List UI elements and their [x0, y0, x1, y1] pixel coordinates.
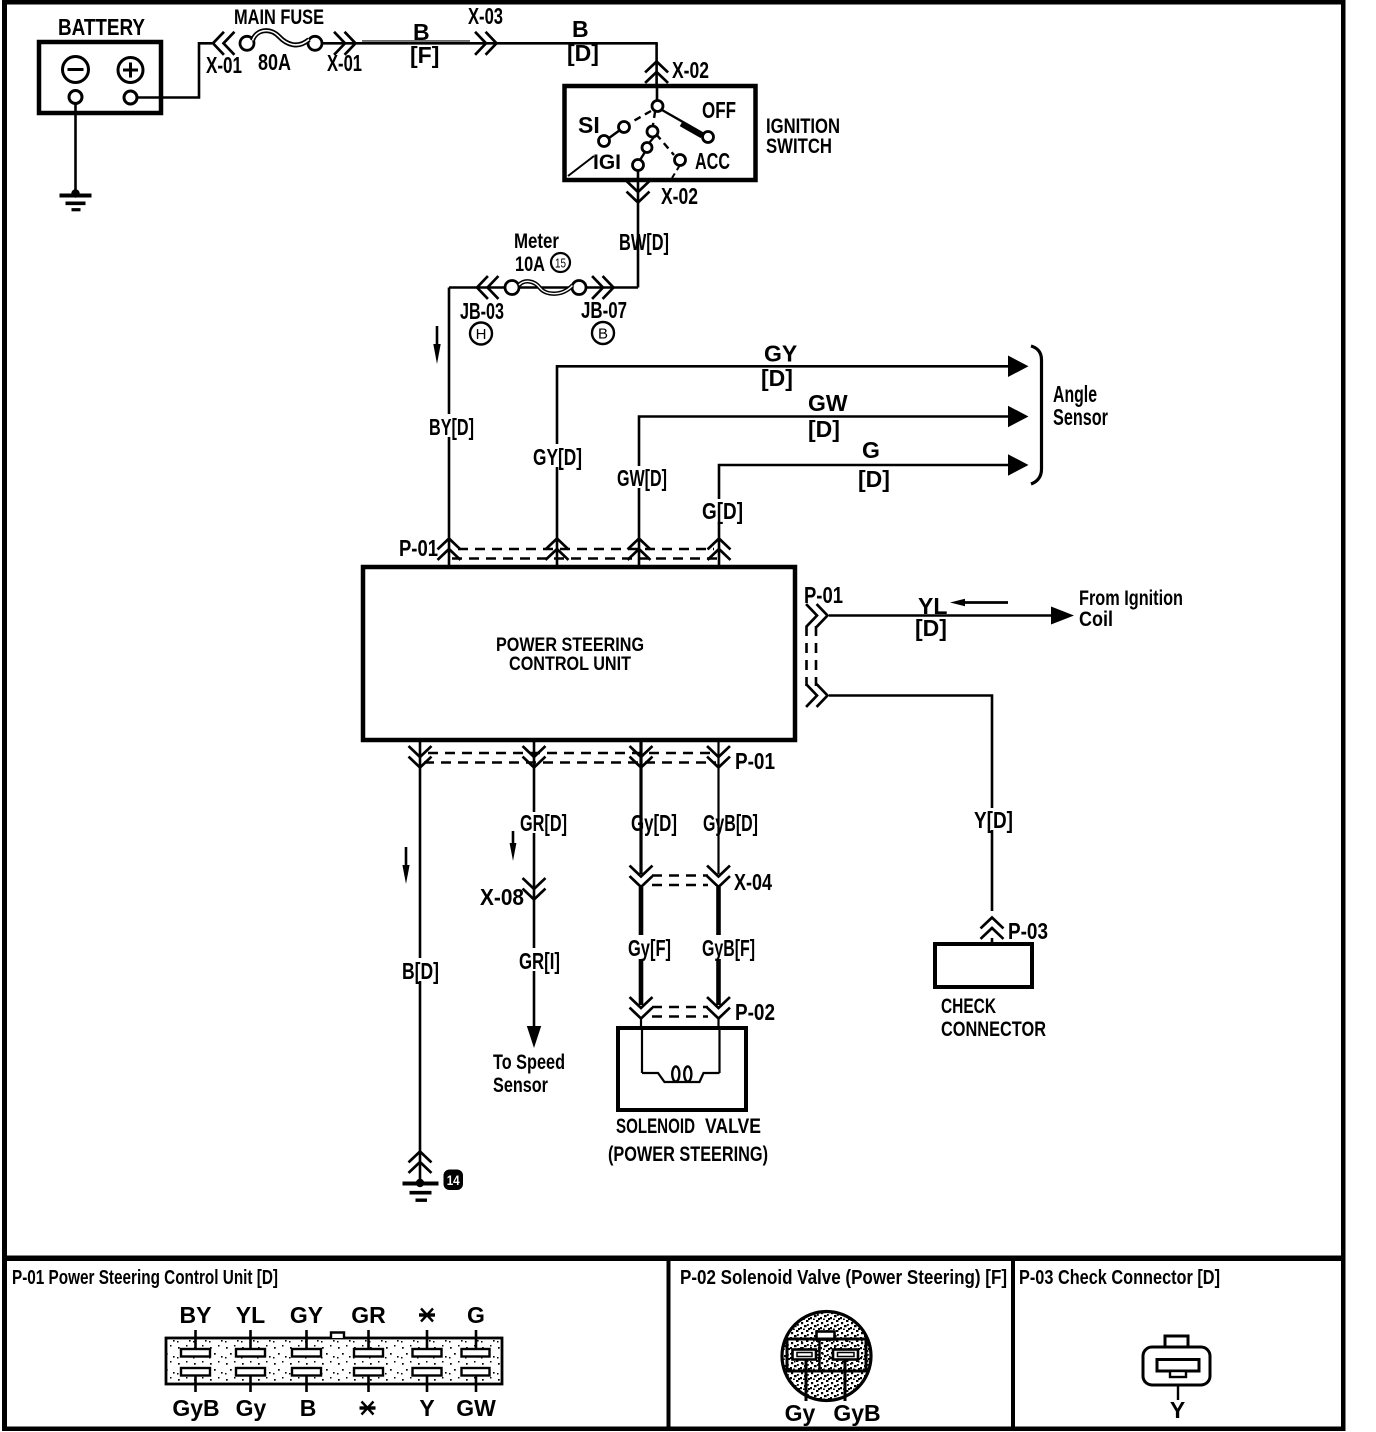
- connector P-03 (chevrons): [982, 918, 1003, 939]
- svg-text:BY[D]: BY[D]: [429, 414, 474, 440]
- ignition switch internals: [568, 88, 736, 178]
- svg-text:15: 15: [555, 256, 566, 271]
- wire GW[D] to angle sensor: [639, 390, 1009, 567]
- svg-text:Meter: Meter: [514, 230, 559, 253]
- P-01 connector pinout: [166, 1333, 502, 1385]
- svg-text:B[D]: B[D]: [402, 958, 439, 984]
- svg-text:CONNECTOR: CONNECTOR: [941, 1018, 1046, 1041]
- wire battery+ to main fuse: [138, 43, 213, 97]
- svg-text:[D]: [D]: [567, 40, 599, 66]
- ignition switch S1 box: [565, 86, 841, 180]
- pins (bottom row): [181, 1368, 490, 1376]
- wire B[D] to ground: [419, 740, 422, 1181]
- direction arrow: [402, 847, 409, 884]
- connector P-01 (bottom row): [410, 747, 776, 774]
- pin stubs (top): [196, 1330, 477, 1350]
- arrowhead GY: [1008, 356, 1029, 378]
- ground (body) chevrons: [410, 1152, 431, 1173]
- svg-text:X-02: X-02: [672, 57, 709, 83]
- svg-text:X-02: X-02: [661, 183, 698, 209]
- svg-text:[D]: [D]: [858, 466, 890, 492]
- svg-text:P-01: P-01: [399, 535, 438, 561]
- solenoid coil L1: [642, 1030, 720, 1082]
- label Y[D]: [971, 808, 1015, 830]
- svg-text:Gy[D]: Gy[D]: [631, 810, 677, 836]
- wire YL[D]: [829, 614, 1051, 617]
- svg-text:IGI: IGI: [593, 151, 621, 174]
- connector X-04: [631, 867, 773, 896]
- svg-text:GY: GY: [764, 341, 797, 367]
- svg-text:JB-07: JB-07: [581, 297, 627, 323]
- svg-text:GyB[D]: GyB[D]: [703, 810, 758, 836]
- svg-text:GW: GW: [808, 390, 848, 416]
- svg-text:X-04: X-04: [734, 869, 772, 895]
- ground (battery): [60, 104, 92, 210]
- svg-text:GR[I]: GR[I]: [519, 948, 560, 974]
- ground number 14: [444, 1170, 464, 1191]
- main fuse 80A: [234, 6, 324, 75]
- connector JB-07: [593, 277, 614, 298]
- svg-text:(POWER STEERING): (POWER STEERING): [608, 1143, 768, 1166]
- pin labels (top): [180, 1302, 485, 1328]
- label GyB[F]: [700, 935, 757, 959]
- wire down to ignition switch: [655, 43, 658, 88]
- label B[D]: [400, 958, 441, 981]
- svg-text:[D]: [D]: [761, 365, 793, 391]
- direction arrow (left): [950, 599, 1008, 607]
- wire GY[D] to angle sensor: [557, 341, 1009, 568]
- label Gy[F]: [626, 935, 673, 959]
- svg-text:80A: 80A: [258, 49, 291, 75]
- svg-text:GyB[F]: GyB[F]: [702, 935, 755, 961]
- svg-text:P-03 Check Connector [D]: P-03 Check Connector [D]: [1019, 1267, 1220, 1289]
- svg-text:Y: Y: [1170, 1397, 1185, 1423]
- svg-text:GW: GW: [456, 1395, 496, 1421]
- svg-text:VALVE: VALVE: [705, 1115, 761, 1138]
- svg-text:GR[D]: GR[D]: [520, 810, 567, 836]
- svg-text:P-01: P-01: [735, 748, 775, 774]
- connector P-01 (top row): [399, 535, 730, 561]
- arrowhead G: [1008, 454, 1029, 476]
- label GR[D]: [518, 812, 569, 833]
- label Gy[D]: [629, 812, 679, 834]
- svg-text:JB-03: JB-03: [460, 298, 504, 324]
- svg-text:Y[D]: Y[D]: [974, 807, 1013, 833]
- connector JB-03: [477, 277, 498, 298]
- svg-text:BATTERY: BATTERY: [58, 14, 145, 40]
- wire ignition to meter fuse: [637, 170, 640, 288]
- svg-text:GyB: GyB: [833, 1400, 880, 1426]
- svg-text:[F]: [F]: [410, 42, 439, 68]
- angle sensor bracket: [1031, 346, 1042, 484]
- label GY[D] (vertical wire): [531, 444, 584, 467]
- svg-text:X-03: X-03: [468, 3, 503, 29]
- pin labels (bottom): [172, 1395, 496, 1421]
- wire meter fuse row: [449, 286, 638, 289]
- svg-text:POWER STEERING: POWER STEERING: [496, 635, 644, 656]
- meter fuse 10A: [505, 230, 586, 295]
- power steering control unit U1: [363, 567, 795, 740]
- svg-text:GY: GY: [290, 1302, 323, 1328]
- pins (top row): [181, 1349, 490, 1357]
- svg-text:SWITCH: SWITCH: [766, 135, 832, 158]
- svg-text:P-03: P-03: [1008, 918, 1048, 944]
- svg-text:14: 14: [447, 1173, 460, 1188]
- not-used symbol (top): [419, 1309, 435, 1322]
- svg-text:P-01 Power Steering Control U: P-01 Power Steering Control Unit [D]: [12, 1267, 278, 1289]
- connector X-01 (left): [213, 33, 234, 54]
- svg-text:BY: BY: [180, 1302, 212, 1328]
- svg-text:GY[D]: GY[D]: [533, 444, 582, 470]
- svg-text:MAIN FUSE: MAIN FUSE: [234, 6, 324, 29]
- connector X-01 (right): [335, 33, 356, 54]
- check connector box: [935, 944, 1046, 1041]
- svg-text:Sensor: Sensor: [1053, 404, 1108, 430]
- wire GyB[F] (thick): [716, 887, 721, 1005]
- svg-text:To Speed: To Speed: [493, 1051, 565, 1074]
- wire GR to speed sensor: [533, 740, 536, 1028]
- ground symbol: [403, 1179, 439, 1200]
- svg-text:G: G: [862, 437, 880, 463]
- svg-text:YL: YL: [236, 1302, 265, 1328]
- wire Gy (bold): [639, 740, 642, 874]
- arrowhead GW: [1008, 406, 1029, 428]
- svg-text:X-01: X-01: [327, 50, 362, 76]
- svg-text:X-01: X-01: [206, 52, 242, 78]
- svg-text:X-08: X-08: [480, 884, 524, 910]
- svg-text:CONTROL UNIT: CONTROL UNIT: [509, 654, 631, 675]
- solenoid valve box: [618, 1028, 746, 1110]
- label GR[I]: [516, 948, 562, 971]
- label BY[D]: [427, 414, 475, 437]
- wire Y[D]: [829, 696, 992, 912]
- svg-text:CHECK: CHECK: [941, 995, 996, 1018]
- P-03 check connector face: [1143, 1336, 1210, 1423]
- svg-text:P-02: P-02: [735, 999, 775, 1025]
- connector X-02 (top): [646, 62, 667, 83]
- svg-text:GyB: GyB: [172, 1395, 219, 1421]
- svg-text:P-02 Solenoid Valve (Power S: P-02 Solenoid Valve (Power Steering) [F]: [680, 1267, 1007, 1289]
- svg-text:[D]: [D]: [915, 615, 947, 641]
- battery B1: [39, 14, 161, 113]
- svg-text:Y: Y: [419, 1395, 434, 1421]
- svg-text:From Ignition: From Ignition: [1079, 587, 1183, 610]
- not-used symbol (bottom): [360, 1402, 376, 1415]
- svg-text:[D]: [D]: [808, 416, 840, 442]
- svg-text:SI: SI: [578, 112, 600, 138]
- svg-text:BW[D]: BW[D]: [619, 229, 669, 255]
- wire BY[D] down to control unit: [448, 288, 451, 568]
- connector P-02: [631, 998, 776, 1025]
- wire B[F]: [322, 42, 658, 45]
- svg-text:H: H: [476, 326, 487, 343]
- svg-text:B: B: [572, 16, 589, 42]
- connector P-01 (right exits): [804, 582, 843, 706]
- svg-text:B: B: [300, 1395, 317, 1421]
- P-02 solenoid connector face: [782, 1312, 881, 1427]
- svg-text:OFF: OFF: [702, 97, 736, 123]
- svg-text:G[D]: G[D]: [702, 498, 743, 524]
- svg-text:GR: GR: [351, 1302, 386, 1328]
- arrowhead to ignition coil: [1051, 607, 1074, 625]
- svg-text:SOLENOID: SOLENOID: [616, 1115, 695, 1138]
- pin stubs (bottom): [196, 1376, 477, 1393]
- label G[D] (vertical wire): [700, 499, 744, 522]
- label GyB[D]: [701, 812, 760, 834]
- svg-text:Gy: Gy: [785, 1400, 816, 1426]
- svg-text:B: B: [598, 326, 608, 343]
- direction arrow: [433, 326, 440, 364]
- wires into solenoid: [640, 1019, 642, 1030]
- svg-text:ACC: ACC: [695, 148, 730, 174]
- svg-text:Gy[F]: Gy[F]: [628, 935, 671, 961]
- wire GyB: [717, 740, 719, 874]
- svg-text:P-01: P-01: [804, 582, 843, 608]
- connector X-02 (bottom): [628, 182, 649, 203]
- svg-text:GW[D]: GW[D]: [617, 465, 667, 491]
- arrowhead to speed sensor: [527, 1026, 541, 1048]
- direction arrow: [510, 831, 517, 861]
- wire G[D] to angle sensor: [719, 437, 1009, 567]
- svg-text:Coil: Coil: [1079, 608, 1113, 631]
- svg-text:G: G: [467, 1302, 485, 1328]
- svg-text:Gy: Gy: [236, 1395, 267, 1421]
- wire Gy[F] (thick): [639, 887, 644, 1005]
- svg-text:10A: 10A: [515, 253, 545, 276]
- label GW[D] (vertical wire): [615, 466, 670, 488]
- svg-text:Sensor: Sensor: [493, 1074, 548, 1097]
